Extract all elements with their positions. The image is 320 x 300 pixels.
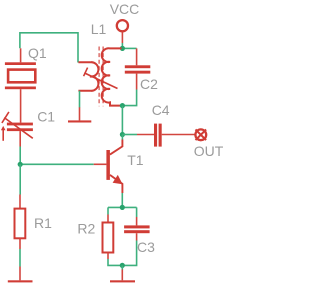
wire C3 to bottom node — [122, 241, 136, 266]
capacitor C4 pin left — [137, 134, 154, 136]
ground under L1 — [79, 107, 81, 120]
wire emitter row to C3 — [136, 207, 138, 217]
ground bottom — [121, 270, 123, 281]
capacitor C2 — [125, 65, 151, 73]
wire Q1 top to L1 — [20, 33, 78, 63]
crystal Q1 — [5, 62, 36, 89]
capacitor C3 pin bottom — [136, 233, 138, 240]
node top junction — [120, 46, 125, 51]
svg-text:R1: R1 — [34, 215, 52, 231]
transistor T1 emitter — [110, 175, 123, 193]
capacitor C1 pin bottom — [19, 131, 21, 146]
capacitor C2 pin top — [136, 48, 138, 65]
wire R2 to bottom node — [108, 259, 122, 265]
resistor R1 pin bottom — [19, 238, 21, 249]
inductor L1 left winding — [78, 62, 98, 91]
VCC terminal — [117, 20, 128, 31]
svg-text:R2: R2 — [77, 221, 95, 237]
node base junction — [18, 162, 23, 167]
wire emitter row to R2 — [107, 207, 109, 214]
node tank bottom junction — [120, 103, 125, 108]
wire C1 to base node — [19, 147, 21, 165]
resistor R2 pin top — [107, 215, 109, 223]
inductor L1 arrow — [84, 68, 118, 89]
inductor L1 core — [99, 47, 103, 107]
ground under R1 — [19, 267, 21, 281]
wire top rail — [122, 47, 137, 49]
wire tank bottom rail — [122, 90, 136, 106]
wire emitter row — [108, 206, 137, 208]
svg-text:L1: L1 — [91, 21, 107, 37]
OUT port — [195, 129, 206, 140]
svg-text:T1: T1 — [127, 152, 144, 168]
capacitor C4 pin right — [162, 134, 196, 136]
resistor R2 pin bottom — [107, 253, 109, 260]
crystal Q1 pin top — [20, 48, 22, 62]
node emitter junction — [120, 205, 125, 210]
transistor T1 collector — [110, 140, 123, 155]
wire emitter to node — [121, 193, 123, 207]
wire base node down — [19, 164, 21, 194]
svg-text:C1: C1 — [37, 109, 55, 125]
transistor T1 base pin — [94, 163, 107, 165]
inductor L1 right winding — [102, 48, 123, 105]
VCC pin wire — [121, 32, 123, 43]
resistor R1 — [15, 209, 26, 239]
svg-text:C2: C2 — [140, 76, 158, 92]
crystal Q1 pin bottom — [20, 89, 22, 122]
transistor T1 — [106, 150, 110, 180]
capacitor C4 — [154, 124, 162, 147]
node collector junction — [120, 132, 125, 137]
svg-text:C3: C3 — [137, 239, 155, 255]
node bottom junction — [120, 263, 125, 268]
wire R1 to ground — [19, 249, 21, 267]
wire collector node to C4 — [122, 134, 137, 136]
wire collector to node — [121, 135, 123, 140]
wire bottom node to ground — [121, 265, 123, 270]
capacitor C3 pin top — [136, 217, 138, 225]
wire L1 left bottom to ground — [79, 91, 81, 108]
capacitor C3 — [124, 225, 150, 233]
capacitor C2 pin bottom — [136, 74, 138, 90]
capacitor C1 (trimmer) — [7, 123, 33, 132]
wire tank to collector node — [121, 106, 123, 135]
wire VCC to top rail — [121, 43, 123, 48]
resistor R1 pin top — [19, 195, 21, 209]
svg-text:VCC: VCC — [110, 1, 140, 17]
svg-text:C4: C4 — [152, 102, 170, 118]
wire base row — [20, 163, 94, 165]
resistor R2 — [103, 223, 114, 253]
svg-text:OUT: OUT — [194, 143, 224, 159]
svg-text:Q1: Q1 — [28, 45, 47, 61]
